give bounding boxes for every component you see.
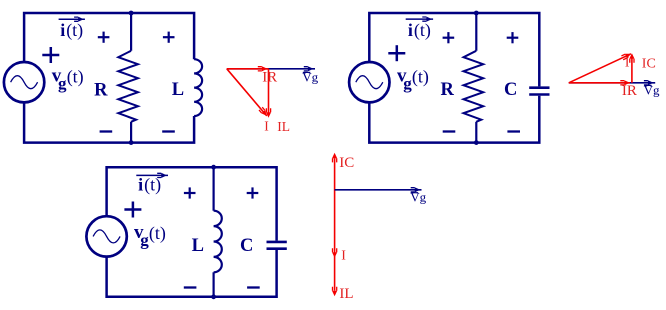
svg-text:i: i [138, 175, 143, 195]
polarity + at source, circuit RC [388, 45, 405, 61]
node: circuit LC bottom junction [211, 294, 216, 299]
capacitor C: plates on right edge, circuit RC [529, 88, 549, 95]
vector IR phasor2 (red) [569, 80, 630, 85]
svg-text:R: R [441, 80, 455, 100]
svg-text:Vg: Vg [302, 69, 318, 84]
wire: circuit LC middle branch [213, 167, 215, 297]
inductor L: 4 loops on right edge, circuit RL [194, 59, 202, 116]
polarity - at C branch, circuit RC [507, 130, 520, 132]
svg-text:g: g [58, 74, 67, 93]
svg-text:Vg: Vg [644, 82, 660, 97]
label Vg phasor1 (macron over V) [302, 69, 318, 84]
vector Vg phasor1 (navy) [227, 66, 315, 71]
svg-text:g: g [140, 230, 149, 249]
svg-text:IL: IL [277, 119, 290, 134]
svg-text:C: C [504, 80, 517, 100]
vector IC phasor2 (red, from IR tip upward) [629, 53, 634, 83]
label i(t) current arrow, circuit RL [59, 17, 85, 22]
wire: circuit RC middle branch [475, 13, 477, 143]
svg-text:g: g [403, 74, 412, 93]
svg-text:IR: IR [622, 83, 637, 99]
vector IC phasor3 arrowhead [332, 153, 337, 159]
polarity + at L branch, circuit RL [163, 32, 175, 43]
svg-text:IL: IL [339, 286, 353, 302]
vector I phasor2 (red diagonal) [569, 51, 632, 82]
label i(t) current arrow, circuit LC [136, 173, 168, 178]
vector Vg phasor2 (navy) [569, 80, 655, 85]
label Vg phasor2 (macron over V) [644, 82, 660, 97]
svg-text:(t): (t) [66, 20, 83, 41]
vector I phasor1 (red diagonal) [227, 69, 269, 118]
svg-text:I: I [264, 118, 269, 133]
capacitor C: plates on right edge, circuit LC [267, 242, 287, 249]
polarity + at R branch, circuit RL [98, 32, 110, 43]
svg-text:(t): (t) [67, 67, 84, 88]
node: circuit LC top junction [211, 165, 216, 170]
wire: circuit RL middle branch [130, 13, 132, 143]
vector IR phasor1 (red) [227, 66, 269, 71]
svg-text:I: I [341, 248, 346, 263]
source vg(t): AC voltage source, circuit RL [4, 62, 44, 102]
polarity + at C branch, circuit LC [247, 187, 259, 198]
polarity + at C branch, circuit RC [507, 32, 519, 43]
polarity + at source, circuit LC [124, 202, 141, 218]
node: circuit RL top junction [129, 11, 134, 16]
svg-text:L: L [192, 236, 204, 256]
resistor R: zigzag, circuit RL [118, 51, 138, 122]
svg-text:i: i [60, 20, 65, 40]
svg-text:(t): (t) [412, 67, 429, 88]
source vg(t): AC voltage source, circuit LC [86, 216, 126, 256]
label i(t) current arrow, circuit RC [406, 17, 433, 22]
svg-text:(t): (t) [149, 223, 166, 244]
polarity - at R branch, circuit RL [100, 130, 113, 132]
source vg(t): AC voltage source, circuit RC [349, 62, 389, 102]
svg-text:L: L [172, 80, 184, 100]
wire: circuit RC outer rectangle [369, 13, 539, 143]
wire: circuit LC outer rectangle [107, 167, 277, 297]
svg-text:IC: IC [339, 155, 354, 171]
polarity - at L branch, circuit RL [162, 130, 175, 132]
svg-text:IR: IR [262, 70, 277, 86]
polarity + at R branch, circuit RC [443, 32, 455, 43]
vector IL phasor3 arrowhead (downward, bottom) [332, 291, 337, 297]
node: circuit RC top junction [474, 11, 479, 16]
polarity + at source, circuit RL [42, 47, 59, 63]
label Vg phasor3 (macron over V) [410, 190, 426, 205]
polarity - at C branch, circuit LC [247, 286, 260, 288]
node: circuit RC bottom junction [474, 140, 479, 145]
svg-text:C: C [240, 236, 253, 256]
resistor R: zigzag, circuit RC [464, 51, 484, 122]
polarity - at R branch, circuit RC [443, 130, 456, 132]
vector IC phasor3 (red, upward) / I and IL (downward) common line [334, 158, 336, 290]
inductor L: 4 loops on middle branch, circuit LC [214, 211, 222, 273]
svg-text:IC: IC [642, 57, 656, 72]
svg-text:i: i [408, 20, 413, 40]
wire: circuit RL outer rectangle [24, 13, 194, 143]
svg-text:R: R [94, 80, 108, 100]
svg-text:(t): (t) [144, 175, 161, 196]
node: circuit RL bottom junction [129, 140, 134, 145]
polarity - at L branch, circuit LC [184, 286, 197, 288]
svg-text:Vg: Vg [410, 190, 426, 205]
polarity + at L branch, circuit LC [184, 187, 196, 198]
vector IL phasor1 (red, from IR tip downward) [266, 69, 271, 118]
vector I phasor3 arrowhead (downward) [332, 252, 337, 258]
svg-text:I: I [625, 54, 630, 69]
vector Vg phasor3 (navy) [335, 187, 422, 192]
svg-text:(t): (t) [414, 20, 431, 41]
